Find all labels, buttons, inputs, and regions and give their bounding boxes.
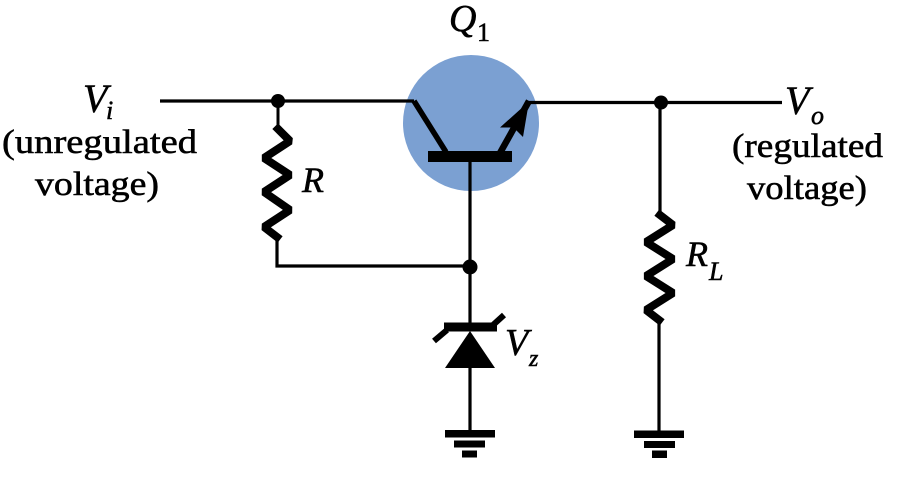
wire: Vo node down to resistor RL xyxy=(658,102,661,216)
resistor R xyxy=(264,129,290,237)
svg-text:Q: Q xyxy=(449,0,476,40)
transistor Q1 base bar xyxy=(428,151,512,162)
svg-text:L: L xyxy=(708,257,723,286)
svg-text:R: R xyxy=(301,160,324,200)
svg-text:voltage): voltage) xyxy=(35,166,159,203)
resistor RL xyxy=(646,215,673,320)
wire: Vi node down to resistor R xyxy=(277,101,280,130)
node A: junction dot at Vi/R xyxy=(271,94,285,108)
svg-text:V: V xyxy=(505,322,532,364)
svg-text:o: o xyxy=(811,101,824,130)
wire: output horizontal from emitter to Vo xyxy=(528,101,782,104)
wire: RL bottom to ground xyxy=(657,319,660,431)
transistor Q1 emitter lead xyxy=(500,101,529,153)
wire: base of Q1 down to zener junction xyxy=(468,160,471,267)
svg-text:V: V xyxy=(785,78,814,123)
svg-text:R: R xyxy=(685,234,708,274)
svg-text:voltage): voltage) xyxy=(747,170,867,207)
ground (below RL) xyxy=(634,431,684,459)
node C: junction dot at R / zener / base xyxy=(463,260,478,275)
svg-text:1: 1 xyxy=(477,18,490,47)
transistor Q1 collector lead xyxy=(414,101,446,152)
wire: junction down to zener cathode xyxy=(468,267,471,324)
wire: zener anode to ground xyxy=(468,366,471,431)
node B: junction dot at Vo/RL xyxy=(654,96,668,110)
wire: input horizontal from Vi to transistor collector kink xyxy=(160,99,414,102)
zener diode Vz cathode bar with bent tails xyxy=(434,315,504,341)
zener diode Vz anode triangle xyxy=(445,331,495,368)
svg-text:z: z xyxy=(528,346,539,372)
svg-text:i: i xyxy=(106,96,113,125)
transistor Q1 emitter arrowhead xyxy=(500,102,529,138)
svg-text:(unregulated: (unregulated xyxy=(2,124,197,161)
svg-text:(regulated: (regulated xyxy=(732,128,883,165)
wire: resistor R bottom down and right to zener node xyxy=(277,236,469,266)
transistor Q1 body circle xyxy=(403,55,539,191)
ground (below zener) xyxy=(445,430,495,458)
